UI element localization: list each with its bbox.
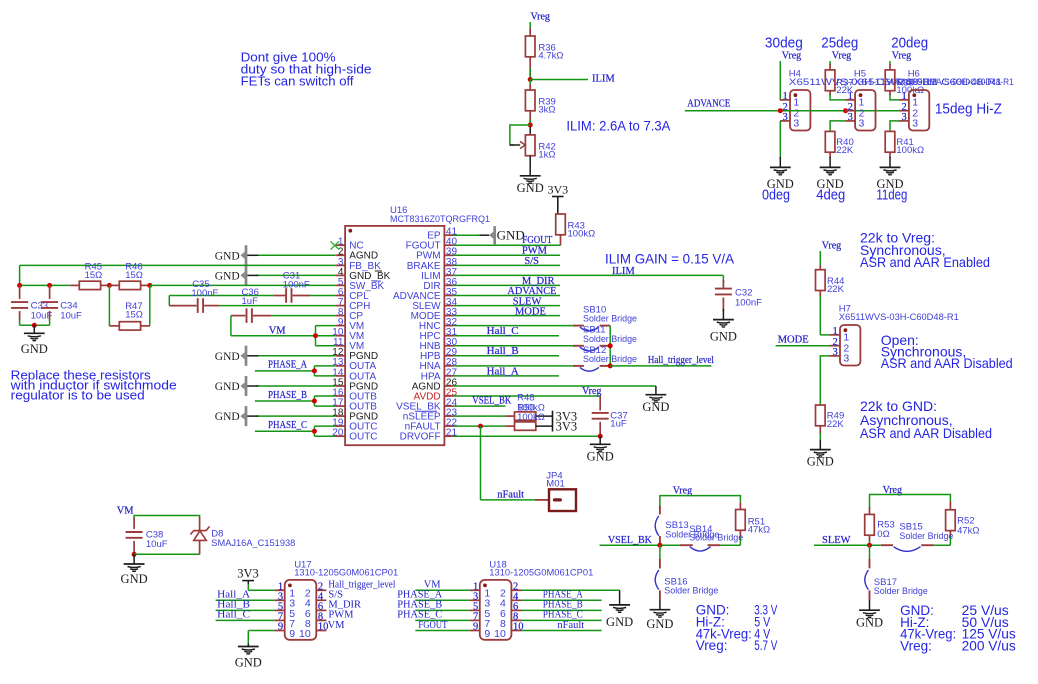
- wire: [829, 152, 831, 158]
- svg-text:22K: 22K: [827, 419, 845, 430]
- node: [107, 283, 112, 288]
- wire FGOUT (U18): [415, 630, 469, 632]
- svg-text:MODE: MODE: [515, 307, 546, 318]
- svg-text:47kΩ: 47kΩ: [957, 525, 979, 536]
- node: [843, 108, 848, 113]
- wire: [829, 91, 831, 96]
- ground flag GND pin18: [256, 415, 336, 417]
- wire H5 pin3: [830, 121, 845, 131]
- node: [608, 363, 613, 368]
- wire VSEL_BK: [600, 544, 681, 546]
- power 3V3 (R50): [552, 421, 554, 432]
- svg-text:GND: GND: [21, 342, 48, 356]
- svg-text:ASR and AAR Disabled: ASR and AAR Disabled: [881, 355, 1013, 371]
- wire: [660, 496, 741, 507]
- ground flag GND pin41: [489, 232, 493, 239]
- wire: [869, 545, 871, 558]
- resistor R48 100k (nSLEEP pullup): [454, 415, 506, 417]
- node: [17, 283, 22, 288]
- svg-text:20deg: 20deg: [891, 34, 928, 51]
- wire VM: [231, 335, 336, 337]
- ground GND (SB17): [859, 609, 880, 611]
- svg-text:GND: GND: [856, 615, 883, 629]
- wire: [529, 111, 531, 125]
- svg-text:MODE: MODE: [778, 335, 809, 346]
- ground GND (C33 C34): [24, 332, 45, 334]
- svg-text:30deg: 30deg: [765, 34, 803, 51]
- svg-text:22K: 22K: [836, 145, 854, 156]
- svg-text:10uF: 10uF: [60, 310, 82, 321]
- svg-text:SLEW: SLEW: [822, 535, 851, 546]
- svg-text:ILIM: ILIM: [592, 74, 615, 85]
- wire: [560, 235, 562, 246]
- svg-text:9: 9: [289, 628, 295, 640]
- svg-text:10: 10: [494, 628, 506, 640]
- svg-text:15deg Hi-Z: 15deg Hi-Z: [935, 101, 1002, 118]
- svg-text:Hall_C: Hall_C: [487, 326, 519, 337]
- svg-text:3: 3: [843, 353, 849, 365]
- potentiometer R42 1k: [529, 127, 531, 135]
- wire PHASE_A right: [521, 599, 601, 601]
- wire VM loop: [134, 516, 200, 520]
- svg-text:Vreg: Vreg: [531, 12, 550, 23]
- svg-text:GND: GND: [817, 177, 844, 191]
- wire: [659, 545, 661, 558]
- wire nFault to JP4: [480, 426, 482, 500]
- svg-text:3: 3: [783, 112, 788, 123]
- ground GND (U17): [238, 646, 259, 648]
- wire PHASE_C: [255, 430, 315, 432]
- svg-text:10: 10: [299, 628, 311, 640]
- node: [147, 283, 152, 288]
- svg-text:Vreg: Vreg: [822, 241, 841, 252]
- wire: [529, 80, 531, 91]
- resistor R36 4.7k: [525, 36, 535, 57]
- node: [598, 434, 603, 439]
- wire: [870, 495, 951, 509]
- svg-text:5.7 V: 5.7 V: [754, 638, 777, 653]
- wire: [557, 197, 559, 215]
- svg-text:ADVANCE: ADVANCE: [687, 99, 730, 110]
- wire wiper loop: [510, 125, 530, 145]
- svg-text:ILIM: ILIM: [612, 266, 635, 277]
- svg-text:GND: GND: [517, 181, 544, 195]
- svg-text:GND: GND: [646, 617, 673, 631]
- svg-text:PHASE_B: PHASE_B: [268, 390, 307, 401]
- svg-text:ILIM GAIN = 0.15 V/A: ILIM GAIN = 0.15 V/A: [605, 251, 735, 267]
- svg-text:1uF: 1uF: [242, 296, 259, 307]
- ground GND (H4): [770, 166, 791, 168]
- svg-text:GND: GND: [497, 228, 525, 243]
- svg-text:VSEL_BK: VSEL_BK: [608, 535, 652, 546]
- svg-text:100nF: 100nF: [191, 288, 218, 299]
- overline nSLEEP: [415, 410, 437, 412]
- svg-text:SMAJ16A_C151938: SMAJ16A_C151938: [211, 538, 295, 549]
- svg-text:22K: 22K: [827, 284, 845, 295]
- svg-text:1: 1: [783, 91, 788, 102]
- resistor R47 15R parallel: [108, 285, 110, 326]
- wire ILIM to C32: [454, 274, 724, 276]
- wire HNA: [454, 365, 573, 367]
- wire FGOUT: [454, 244, 561, 246]
- svg-text:GND: GND: [642, 400, 669, 414]
- wire Hall_trigger_level: [610, 365, 711, 367]
- svg-text:GND: GND: [807, 454, 834, 468]
- wire nFault right: [521, 630, 601, 632]
- svg-text:Solder Bridge: Solder Bridge: [689, 532, 743, 543]
- wire M_DIR: [454, 284, 560, 286]
- svg-text:1: 1: [901, 91, 906, 102]
- wire ILIM: [530, 79, 588, 81]
- ground GND (C38): [124, 563, 145, 565]
- svg-text:Vreg: Vreg: [782, 51, 801, 62]
- svg-text:10uF: 10uF: [146, 539, 168, 550]
- svg-text:Hall_trigger_level: Hall_trigger_level: [648, 355, 714, 366]
- svg-text:100kΩ: 100kΩ: [896, 145, 924, 156]
- capacitor C32 100nF: [722, 275, 724, 283]
- ground flag GND pin2: [256, 254, 336, 256]
- wire ADVANCE: [454, 295, 560, 297]
- wire: [819, 426, 821, 434]
- wire PHASE_A: [255, 370, 315, 372]
- wire H6 pin3: [890, 121, 899, 131]
- solder bridge SB16: [659, 559, 661, 569]
- wire: [599, 436, 601, 444]
- wire SB bus: [609, 326, 611, 366]
- svg-text:1: 1: [833, 326, 838, 337]
- resistor R39 3k: [525, 90, 535, 111]
- resistor R50 100k (nFAULT pullup): [454, 425, 506, 427]
- svg-text:3V3: 3V3: [237, 567, 259, 581]
- svg-text:Vreg: Vreg: [832, 51, 851, 62]
- svg-text:3V3: 3V3: [547, 183, 568, 197]
- svg-text:VM: VM: [328, 620, 346, 631]
- node ILIM junction: [528, 77, 533, 82]
- ground GND (C37): [590, 443, 611, 445]
- wire PHASE_B right: [521, 609, 601, 611]
- node: [312, 368, 317, 373]
- wire SLEW: [814, 544, 881, 546]
- svg-text:ASR and AAR Disabled: ASR and AAR Disabled: [860, 425, 992, 441]
- ground GND (U18): [609, 604, 630, 606]
- wire: [529, 57, 531, 80]
- svg-text:X6511WVS-03H-C60D48-R1: X6511WVS-03H-C60D48-R1: [839, 312, 959, 323]
- solder bridge SB13: [659, 506, 661, 515]
- ground GND (R42): [520, 175, 541, 177]
- wire: [720, 544, 740, 546]
- solder bridge SB17: [869, 559, 871, 569]
- svg-text:OUTC: OUTC: [349, 432, 377, 443]
- svg-text:PHASE_A: PHASE_A: [268, 360, 307, 371]
- svg-text:1310-1205G0M061CP01: 1310-1205G0M061CP01: [294, 568, 398, 579]
- svg-text:PHASE_C: PHASE_C: [268, 420, 307, 431]
- node R42 top junction: [528, 123, 533, 128]
- wire MODE: [454, 315, 560, 317]
- svg-text:GND: GND: [215, 250, 240, 262]
- svg-text:Solder Bridge: Solder Bridge: [664, 586, 718, 597]
- wire: [889, 91, 891, 96]
- svg-text:3: 3: [912, 118, 918, 130]
- svg-text:Vreg: Vreg: [582, 386, 601, 397]
- svg-text:Hall_C: Hall_C: [217, 610, 250, 621]
- wire: [168, 296, 170, 306]
- svg-text:1: 1: [848, 91, 853, 102]
- ground GND (R49): [810, 449, 831, 451]
- wire SW_BK rail: [20, 284, 71, 286]
- svg-text:3: 3: [859, 118, 865, 130]
- svg-text:Vreg: Vreg: [673, 485, 692, 496]
- wire HNC: [454, 325, 573, 327]
- ground GND (C32): [713, 319, 734, 321]
- wire PHASE_B (U18): [415, 609, 469, 611]
- node: [313, 333, 318, 338]
- wire: [150, 284, 336, 286]
- wire: [529, 156, 531, 176]
- wire: [230, 316, 232, 336]
- svg-text:Hall_A: Hall_A: [487, 366, 519, 377]
- svg-text:3: 3: [848, 112, 853, 123]
- svg-text:FGOUT: FGOUT: [522, 235, 552, 246]
- resistor R41 100k: [885, 131, 895, 152]
- svg-text:100nF: 100nF: [735, 297, 762, 308]
- wire: [529, 28, 531, 37]
- svg-text:GND: GND: [215, 381, 240, 393]
- wire: [820, 334, 830, 336]
- svg-text:VSEL_BK: VSEL_BK: [472, 396, 511, 407]
- svg-text:ILIM: 2.6A to 7.3A: ILIM: 2.6A to 7.3A: [566, 117, 671, 133]
- resistor R40 22K: [825, 131, 835, 152]
- wire MODE: [776, 345, 830, 347]
- resistor R38 100k: [885, 70, 895, 91]
- ground flag GND pin12: [256, 355, 336, 357]
- overline SW_BK: [374, 280, 381, 282]
- wire: [889, 152, 891, 158]
- pin1 marker: [348, 229, 352, 233]
- node: [47, 283, 52, 288]
- wire Hall_A: [454, 375, 559, 377]
- wire Hall_B: [216, 609, 275, 611]
- wire PHASE_C right: [521, 619, 601, 621]
- svg-text:1kΩ: 1kΩ: [538, 150, 555, 161]
- svg-text:25deg: 25deg: [821, 34, 858, 51]
- svg-text:GND: GND: [767, 177, 794, 191]
- wire: [247, 584, 249, 590]
- capacitor C33 10uF: [19, 285, 21, 299]
- resistor R44 22K: [816, 270, 826, 291]
- power 3V3 (R48): [552, 411, 554, 422]
- svg-text:Hall_B: Hall_B: [487, 346, 519, 357]
- resistor R46 15R: [109, 284, 119, 286]
- svg-text:GND: GND: [215, 411, 240, 423]
- svg-text:Solder Bridge: Solder Bridge: [899, 531, 953, 542]
- wire VM pins 9-11: [316, 325, 336, 327]
- svg-text:9: 9: [278, 622, 283, 633]
- capacitor C34 10uF: [49, 285, 51, 299]
- wire U18 pin2 to GND: [521, 589, 619, 591]
- svg-text:M01: M01: [546, 479, 564, 490]
- svg-text:15Ω: 15Ω: [85, 270, 103, 281]
- svg-text:9: 9: [484, 628, 490, 640]
- solder bridge SB15: [881, 544, 893, 546]
- wire ADVANCE: [685, 110, 899, 112]
- capacitor C37 1uF: [599, 396, 601, 411]
- svg-text:VM: VM: [117, 505, 135, 516]
- node: [657, 543, 662, 548]
- svg-text:regulator is to be used: regulator is to be used: [11, 389, 145, 403]
- node: [608, 343, 613, 348]
- wire FB_BK: [20, 264, 336, 266]
- svg-text:Vreg:: Vreg:: [696, 638, 728, 653]
- wire DRVOFF: [454, 435, 601, 437]
- svg-text:GND: GND: [235, 656, 262, 670]
- resistor R49 22K: [816, 405, 826, 426]
- svg-text:1310-1205G0M061CP01: 1310-1205G0M061CP01: [489, 568, 593, 579]
- wire Hall_C: [454, 335, 559, 337]
- wire: [20, 324, 50, 326]
- svg-text:100kΩ: 100kΩ: [517, 412, 545, 423]
- solder bridge SB14: [680, 544, 693, 546]
- ground GND (R41): [880, 166, 901, 168]
- capacitor C38 10uF: [133, 518, 135, 530]
- wire: [134, 553, 200, 555]
- wire Hall_B: [454, 355, 559, 357]
- wire SLEW: [454, 305, 560, 307]
- svg-text:GND: GND: [587, 449, 614, 463]
- svg-text:nFault: nFault: [557, 620, 584, 631]
- wire: [819, 291, 821, 297]
- svg-text:nFault: nFault: [497, 489, 524, 500]
- resistor R53 0R: [869, 507, 871, 514]
- svg-text:GND: GND: [215, 351, 240, 363]
- svg-text:ASR and AAR Enabled: ASR and AAR Enabled: [860, 254, 990, 270]
- svg-text:200 V/us: 200 V/us: [962, 638, 1016, 653]
- wire: [722, 309, 724, 319]
- wire HNB: [454, 345, 573, 347]
- svg-text:GND: GND: [606, 615, 633, 629]
- svg-text:GND: GND: [710, 330, 737, 344]
- ground flag GND pin4: [256, 274, 336, 276]
- wire AGND pin26: [454, 385, 656, 387]
- svg-text:Vreg:: Vreg:: [900, 638, 932, 653]
- svg-text:4.7kΩ: 4.7kΩ: [538, 51, 563, 62]
- resistor R51 47k: [739, 502, 741, 509]
- wire PWM: [454, 254, 560, 256]
- svg-text:9: 9: [473, 622, 478, 633]
- svg-text:S/S: S/S: [524, 256, 539, 267]
- node: [312, 399, 317, 404]
- wire H4 pin3 to GND: [779, 121, 781, 159]
- node: [32, 323, 37, 328]
- svg-text:3: 3: [901, 112, 906, 123]
- wire PHASE_B: [255, 400, 315, 402]
- wire: [33, 325, 35, 333]
- wire Hall_A: [216, 599, 275, 601]
- svg-text:Solder Bridge: Solder Bridge: [583, 314, 637, 325]
- diode D8 SMAJ16A TVS: [199, 517, 201, 531]
- node: [778, 108, 783, 113]
- svg-text:VM: VM: [269, 326, 287, 337]
- wire S/S: [454, 264, 560, 266]
- svg-text:FETs can switch off: FETs can switch off: [241, 73, 354, 88]
- node nFAULT junction: [478, 424, 483, 429]
- svg-text:MCT8316Z0TQRGFRQ1: MCT8316Z0TQRGFRQ1: [390, 214, 490, 225]
- wire H7 pin3: [820, 356, 830, 405]
- svg-text:X6511WVS-03H-C60D48-R1: X6511WVS-03H-C60D48-R1: [908, 77, 1014, 88]
- svg-text:47kΩ: 47kΩ: [748, 525, 770, 536]
- ground GND (R40): [820, 166, 841, 168]
- wire U17 pin9 to GND: [248, 630, 274, 632]
- svg-text:GND: GND: [121, 572, 148, 586]
- node: [312, 429, 317, 434]
- node: [132, 552, 137, 557]
- ground GND (SB16): [650, 609, 671, 611]
- svg-text:GND: GND: [876, 177, 903, 191]
- wire Hall_C: [216, 619, 275, 621]
- node: [867, 543, 872, 548]
- svg-text:0Ω: 0Ω: [877, 529, 889, 540]
- resistor R52 47k: [949, 502, 951, 510]
- svg-text:FGOUT: FGOUT: [418, 620, 447, 631]
- wire PHASE_A (U18): [415, 599, 469, 601]
- wire VM (U18): [415, 589, 469, 591]
- svg-text:3kΩ: 3kΩ: [538, 105, 555, 116]
- svg-text:Solder Bridge: Solder Bridge: [874, 586, 928, 597]
- svg-text:1uF: 1uF: [610, 418, 627, 429]
- ground GND (AGND): [646, 394, 667, 396]
- svg-text:3V3: 3V3: [556, 419, 578, 433]
- no-connect X on pin1: [331, 241, 339, 249]
- svg-text:3: 3: [793, 118, 799, 130]
- svg-text:100kΩ: 100kΩ: [568, 229, 596, 240]
- resistor R37 22K: [825, 70, 835, 91]
- resistor R43 100k: [556, 214, 566, 235]
- svg-text:3: 3: [833, 347, 838, 358]
- svg-text:GND: GND: [215, 270, 240, 282]
- resistor R45 15R: [70, 284, 79, 286]
- overline GND_BK: [375, 270, 382, 272]
- wire PHASE_C (U18): [415, 619, 469, 621]
- svg-text:15Ω: 15Ω: [125, 309, 143, 320]
- wire: [934, 544, 951, 546]
- wire VSEL_BK stub: [454, 405, 506, 407]
- svg-text:Vreg: Vreg: [892, 51, 911, 62]
- ground flag GND pin15: [256, 385, 336, 387]
- svg-text:15Ω: 15Ω: [125, 270, 143, 281]
- svg-text:DRVOFF: DRVOFF: [400, 432, 441, 443]
- wire: [133, 554, 135, 563]
- wire AVDD Vreg: [454, 395, 601, 397]
- wire EP to GND flag: [454, 234, 480, 236]
